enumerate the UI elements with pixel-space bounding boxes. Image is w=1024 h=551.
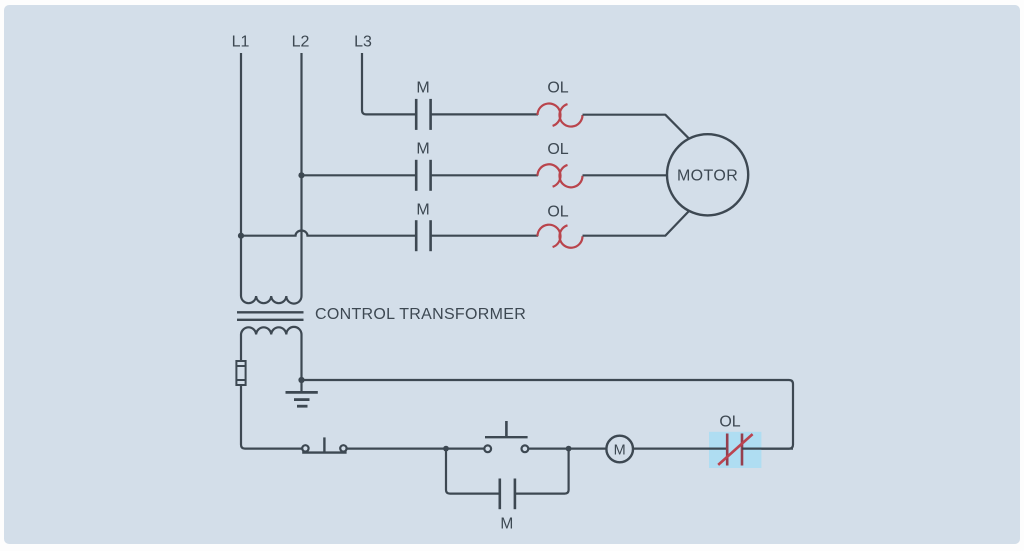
contact M rung 1 [416,99,430,130]
wire rung 3 contact to OL [431,235,538,237]
branch wire right riser [515,449,569,494]
wire rung 1 contact to OL [431,113,538,115]
svg-text:OL: OL [547,141,568,158]
highlight box OL contact [709,432,761,468]
transformer primary winding [241,296,302,304]
OL heater rung 1 [538,103,583,126]
junction dot L1 rung 3 [238,233,244,239]
wire fuse to control rung [241,385,302,449]
svg-text:M: M [416,79,429,96]
svg-text:M: M [614,442,626,458]
power line L2 [300,53,302,296]
junction dot ground [298,377,304,383]
wire secondary right to ground junction [300,335,302,381]
OL contact NC plates [727,434,742,466]
wire rung 3 from L1 with hop over L2 [241,231,416,236]
wire stop to junction [347,448,446,450]
wire junction to start button [446,448,484,450]
OL heater rung 2 [538,164,583,187]
contact M rung 3 [416,220,430,251]
wire rung 2 from L2 [302,174,417,176]
svg-text:M: M [416,140,429,157]
svg-text:MOTOR: MOTOR [677,167,738,184]
wire rung 2 contact to OL [431,174,538,176]
svg-text:M: M [416,202,429,219]
power line L3 with bend to rung 1 [362,53,416,114]
svg-text:OL: OL [719,414,740,431]
coil M [606,436,633,463]
wire OL contact to right riser [742,448,793,450]
junction dot L2 rung 2 [298,172,304,178]
ground symbol [286,380,318,406]
junction dot branch left [443,446,449,452]
junction dot branch right [566,446,572,452]
stop pushbutton NC [302,437,346,452]
svg-text:L1: L1 [232,34,250,51]
svg-text:L2: L2 [292,34,310,51]
wire rung 3 OL to motor [583,211,690,236]
fuse F1 [236,361,245,385]
svg-text:L3: L3 [354,34,372,51]
wire rung 2 OL to motor [583,174,668,176]
branch wire left drop [446,449,500,494]
svg-text:CONTROL TRANSFORMER: CONTROL TRANSFORMER [315,306,526,323]
wire secondary left to fuse [240,335,242,362]
transformer secondary winding [241,327,302,335]
wire ground junction to right riser [302,380,794,449]
svg-text:M: M [500,515,513,532]
svg-text:OL: OL [547,204,568,221]
wire junction to coil M [569,448,607,450]
contact M rung 2 [416,160,430,191]
wire start button to junction [528,448,568,450]
svg-text:OL: OL [547,80,568,97]
power line L1 [240,53,242,296]
OL contact slash [718,434,752,465]
wire coil to OL contact [633,448,727,450]
transformer core [237,312,304,320]
wire coil to OL contact inside highlight [709,448,727,450]
motor circle [667,134,748,215]
OL heater rung 3 [538,225,583,248]
auxiliary contact M [500,479,515,510]
wire rung 1 OL to motor [583,115,690,139]
start pushbutton NO [484,421,528,452]
